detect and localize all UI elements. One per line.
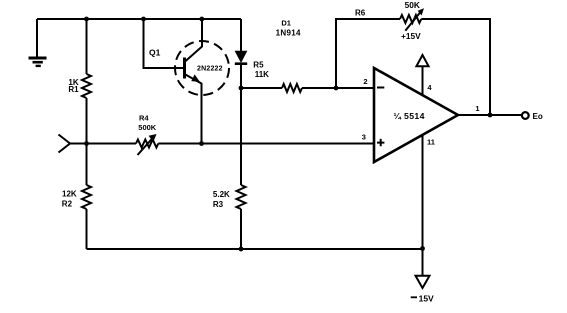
svg-text:R5: R5 bbox=[253, 61, 264, 70]
svg-text:50K: 50K bbox=[405, 0, 420, 10]
svg-text:R3: R3 bbox=[213, 200, 224, 209]
svg-text:4: 4 bbox=[427, 83, 432, 92]
svg-text:2N2222: 2N2222 bbox=[197, 66, 223, 73]
svg-text:R1: R1 bbox=[68, 85, 79, 94]
svg-text:5.2K: 5.2K bbox=[213, 190, 230, 199]
svg-text:2: 2 bbox=[363, 77, 367, 86]
svg-text:3: 3 bbox=[362, 132, 366, 141]
svg-text:+15V: +15V bbox=[401, 31, 421, 41]
svg-text:R2: R2 bbox=[62, 199, 73, 208]
svg-text:12K: 12K bbox=[62, 190, 77, 199]
svg-text:11: 11 bbox=[427, 138, 435, 147]
svg-text:D1: D1 bbox=[281, 19, 291, 28]
svg-text:1: 1 bbox=[475, 104, 479, 113]
svg-text:R4: R4 bbox=[139, 114, 149, 123]
svg-text:11K: 11K bbox=[255, 70, 269, 79]
svg-text:¼ 5514: ¼ 5514 bbox=[394, 111, 425, 121]
svg-text:1N914: 1N914 bbox=[276, 29, 301, 38]
svg-text:Eo: Eo bbox=[533, 112, 543, 121]
svg-text:15V: 15V bbox=[419, 293, 434, 303]
svg-text:R6: R6 bbox=[355, 9, 366, 18]
svg-text:500K: 500K bbox=[138, 123, 157, 132]
svg-text:Q1: Q1 bbox=[149, 47, 161, 57]
